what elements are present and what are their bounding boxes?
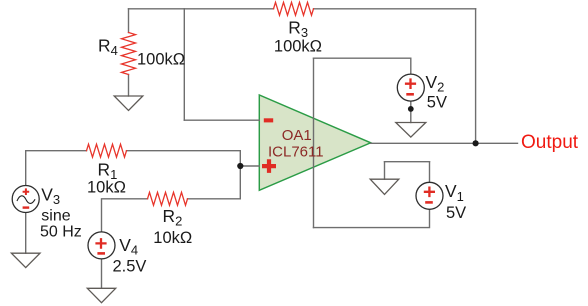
V2 minus mark: [406, 93, 414, 96]
wire node A vertical: [239, 151, 241, 199]
V3 plus mark: [23, 188, 30, 195]
resistor R4: [122, 33, 136, 75]
wire inverting input horizontal: [184, 119, 259, 121]
svg-text:10kΩ: 10kΩ: [87, 179, 126, 197]
junction dot node A: [237, 163, 243, 169]
svg-text:100kΩ: 100kΩ: [137, 50, 185, 68]
V2 plus mark: [405, 78, 416, 89]
wire V4 bottom stem: [101, 259, 103, 288]
voltage source V2 circle: [397, 74, 424, 101]
wire V3 to R1: [26, 151, 87, 186]
wire supply rail vertical: [313, 58, 315, 227]
wire R4 bottom stem: [128, 75, 130, 97]
wire R4 top stem: [128, 9, 130, 33]
ground below V2: [396, 123, 426, 138]
wire inverting input drop: [183, 9, 185, 120]
svg-text:100kΩ: 100kΩ: [274, 38, 322, 56]
svg-text:V3: V3: [41, 185, 60, 208]
wire R1 to node A: [127, 150, 241, 152]
junction dot output node: [473, 140, 479, 146]
V1 plus mark: [424, 187, 435, 198]
wire output: [371, 142, 518, 144]
V3 sine symbol: [17, 196, 35, 204]
wire V4 to R2: [102, 199, 148, 232]
wire V3 bottom stem: [25, 213, 27, 254]
ground below V3: [11, 253, 40, 267]
svg-text:V1: V1: [445, 181, 464, 204]
resistor R2: [148, 192, 188, 205]
V4 plus mark: [95, 238, 106, 249]
svg-text:ICL7611: ICL7611: [268, 144, 324, 161]
wire V1 ground stem: [384, 162, 386, 180]
wire non-inverting input: [240, 165, 259, 167]
op-amp inverting input minus symbol: [264, 118, 273, 122]
wire V2 top stem: [410, 58, 412, 74]
wire V2 top horizontal: [314, 57, 411, 59]
wire V1 ground horizontal: [385, 161, 430, 163]
wire negative supply bottom: [314, 209, 430, 228]
voltage source V3 circle (sine): [12, 186, 39, 213]
svg-text:R2: R2: [163, 206, 183, 229]
voltage source V4 circle: [88, 232, 115, 259]
voltage source V1 circle: [416, 182, 443, 209]
svg-text:10kΩ: 10kΩ: [153, 229, 192, 247]
wire V1 top stem: [429, 162, 431, 183]
svg-text:Output: Output: [521, 132, 579, 153]
wire R2 to node A: [188, 198, 241, 200]
wire feedback right drop: [475, 9, 477, 144]
svg-text:sine: sine: [41, 208, 70, 225]
svg-text:OA1: OA1: [282, 127, 312, 144]
ground below R4: [114, 96, 143, 111]
ground at V1 plus rail: [370, 179, 399, 194]
V3 minus mark: [23, 206, 30, 208]
svg-text:V2: V2: [426, 72, 445, 95]
resistor R1: [87, 144, 127, 157]
wire top horizontal right segment: [314, 8, 476, 10]
svg-text:50 Hz: 50 Hz: [40, 224, 82, 241]
svg-text:5V: 5V: [446, 204, 466, 222]
op-amp non-inverting input plus symbol: [262, 159, 276, 173]
svg-text:R4: R4: [98, 35, 118, 58]
junction dot V2 negative terminal: [408, 106, 414, 112]
svg-text:5V: 5V: [427, 93, 447, 111]
wire top horizontal left segment: [129, 8, 274, 10]
ground below V4: [87, 288, 115, 302]
V1 minus mark: [425, 201, 433, 204]
svg-text:V4: V4: [119, 235, 138, 258]
wire V2 bottom stem: [410, 101, 412, 122]
svg-text:2.5V: 2.5V: [113, 258, 147, 276]
V4 minus mark: [97, 252, 105, 255]
resistor R3: [274, 2, 314, 15]
op-amp U1 OA1 ICL7611: [259, 95, 370, 190]
